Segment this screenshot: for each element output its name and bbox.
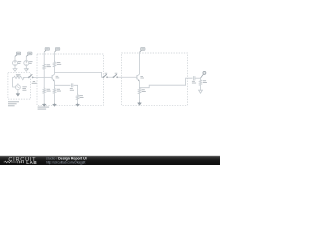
switch SW3 (113, 73, 118, 78)
wire (200, 87, 202, 89)
wire (195, 77, 201, 79)
wire output branch (140, 78, 193, 88)
net flag on V1 (15, 52, 21, 56)
resistor R5 emitter (53, 87, 61, 95)
capacitor C2 output (192, 76, 196, 83)
wire base Q1 (44, 76, 52, 78)
sine source V3 (16, 83, 27, 90)
transistor Q1 (52, 74, 59, 81)
output pin marker (201, 71, 206, 78)
dashed box: amplifier stage 1 (37, 54, 104, 105)
wire emitter down (54, 81, 56, 89)
wire stage1 output (55, 72, 103, 77)
wire (43, 95, 45, 103)
dashed box: output stage (122, 53, 188, 105)
wire (139, 95, 141, 101)
wire collector node (54, 69, 56, 75)
wire emitter Q2 (139, 81, 141, 89)
voltage source V2 (24, 56, 33, 65)
transistor Q2 (137, 74, 144, 81)
net flag VCC Q2 (140, 48, 146, 53)
wire interstage (107, 76, 136, 78)
net flag on V2 (26, 52, 32, 56)
switch SW1 annotation mark (26, 68, 28, 71)
svg-text:http://circuitlab.com/c/kajg8t: http://circuitlab.com/c/kajg8t (46, 160, 85, 164)
wire collector Q2 (139, 52, 141, 74)
resistor R4 (53, 60, 61, 68)
wire emitter branch (55, 85, 78, 94)
resistor R1 (series, horizontal) (12, 74, 24, 80)
resistor R3 (43, 87, 51, 95)
ground under V2 (24, 66, 28, 72)
dashed box: signal source block (8, 73, 31, 99)
capacitor C1 (70, 83, 74, 90)
voltage source V1 (13, 56, 22, 65)
net flag VCC chain A (44, 48, 49, 53)
resistor R8 load (199, 78, 207, 87)
ground chain B (53, 103, 57, 106)
wire (13, 77, 16, 87)
caption under signal source box (8, 101, 19, 106)
resistor R7 (138, 87, 146, 95)
ground under source (16, 90, 20, 97)
ground under V1 (13, 66, 17, 72)
resistor R2 (43, 63, 51, 71)
CircuitLab logo (4, 157, 38, 165)
wire node in (23, 76, 44, 78)
wire (77, 101, 79, 103)
net flag VCC chain B (55, 48, 60, 53)
footer bar (0, 0, 1, 1)
wire (43, 52, 45, 64)
wire (54, 95, 56, 103)
switch SW1 label (32, 81, 37, 84)
switch SW2 (103, 73, 108, 78)
ground Q2 emitter (138, 102, 142, 106)
ground chain A (42, 103, 46, 106)
switch SW1 (28, 74, 33, 78)
resistor R6 (76, 93, 83, 101)
ground load (199, 89, 203, 93)
wire (43, 71, 45, 88)
ground bypass (76, 103, 80, 106)
wire (54, 52, 56, 61)
svg-text:LAB: LAB (26, 160, 37, 165)
caption under box 1 (38, 107, 50, 110)
